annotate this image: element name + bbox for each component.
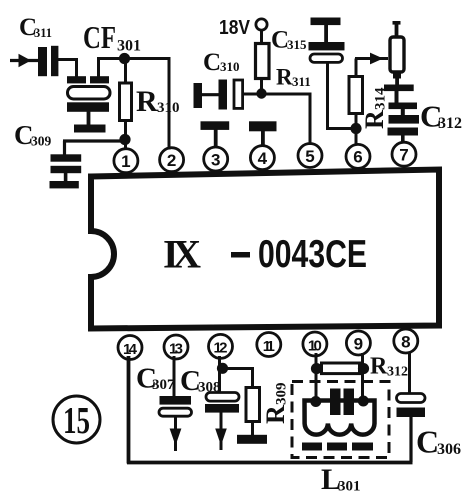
coil L301 body: [305, 401, 375, 435]
input arrow: [10, 54, 40, 67]
svg-text:4: 4: [258, 149, 268, 168]
arrow R314 to coil: [355, 53, 388, 65]
pin 9: [346, 331, 370, 355]
capacitor C307: [159, 396, 192, 416]
capacitor C315: [309, 18, 345, 63]
wire pin14 to bottom bus: [127, 356, 413, 464]
capacitor C306: [397, 394, 426, 418]
svg-text:310: 310: [220, 59, 240, 74]
wire bus up to C306: [409, 417, 412, 462]
svg-text:C: C: [416, 424, 439, 460]
C315 label: [271, 27, 307, 54]
junction node A: [119, 53, 130, 64]
18V terminal: [256, 19, 267, 43]
resistor R310: [120, 59, 132, 141]
ceramic filter CF301: [67, 76, 110, 132]
capacitor stub at pin 4: [249, 121, 277, 147]
pin 13: [164, 335, 188, 359]
C308 label: [180, 365, 221, 397]
pin 3: [204, 147, 228, 171]
svg-text:R: R: [370, 354, 388, 380]
C308 ground arrow: [215, 413, 227, 451]
svg-text:301: 301: [338, 479, 361, 495]
C307 ground arrow: [170, 417, 182, 452]
wire node E to R309: [221, 369, 254, 389]
junction dots R312: [311, 363, 369, 374]
node wire pad to R310 to pin2: [97, 57, 171, 150]
pin 7: [392, 142, 416, 166]
wire pin10 down: [315, 353, 318, 403]
svg-text:308: 308: [198, 380, 221, 396]
junction node D: [350, 123, 361, 134]
figure number 15 (circled): [53, 396, 100, 443]
svg-text:312: 312: [387, 365, 408, 380]
svg-text:14: 14: [123, 341, 138, 358]
pin 2: [160, 148, 184, 172]
pin 5: [298, 144, 322, 168]
L301 label: [321, 463, 361, 496]
R312 label: [370, 354, 408, 380]
coil internal capacitor bars: [330, 389, 354, 416]
junction node C: [256, 88, 266, 98]
pin 8: [394, 329, 418, 353]
svg-text:315: 315: [287, 37, 307, 52]
svg-text:5: 5: [305, 147, 314, 166]
resistor R311: [256, 44, 270, 95]
pin 4: [250, 146, 274, 170]
resistor R314: [349, 59, 363, 130]
pin 6: [346, 144, 370, 168]
wire pin13 to C307: [173, 356, 176, 397]
R311 label: [276, 65, 311, 90]
L301 shield box (dashed): [292, 382, 389, 458]
svg-text:312: 312: [438, 115, 462, 132]
R314 label (rotated): [360, 87, 389, 129]
svg-text:2: 2: [167, 151, 176, 170]
svg-text:0043CE: 0043CE: [258, 233, 367, 276]
svg-text:R: R: [136, 85, 158, 118]
coil core dashes: [302, 443, 373, 451]
svg-text:C: C: [203, 49, 221, 76]
svg-text:307: 307: [152, 377, 175, 393]
resistor R309: [237, 388, 267, 444]
R309 label (rotated): [261, 383, 290, 425]
junction node E: [217, 363, 228, 374]
svg-text:309: 309: [274, 383, 290, 406]
capacitor stub at pin 3: [201, 121, 230, 148]
wire pin9 down: [361, 353, 364, 402]
R310 label: [136, 85, 180, 118]
svg-text:12: 12: [214, 340, 228, 357]
capacitor C312: [388, 91, 420, 144]
wire to pin 1: [124, 140, 127, 151]
svg-text:7: 7: [399, 146, 408, 165]
svg-text:6: 6: [353, 148, 362, 167]
pin 11: [257, 333, 281, 357]
junction node B: [119, 134, 130, 145]
wire node D to pin 6: [355, 129, 358, 146]
C312 label: [420, 99, 462, 134]
wire pin12 to C308: [218, 356, 221, 393]
svg-text:3: 3: [211, 150, 220, 169]
svg-text:IX: IX: [163, 232, 202, 277]
IC part number label IX-0043CE: [163, 232, 367, 277]
C306 label: [416, 424, 461, 460]
svg-text:311: 311: [292, 74, 311, 89]
capacitor C311: [38, 46, 58, 76]
C309 label: [14, 120, 52, 150]
svg-text:18V: 18V: [219, 17, 251, 39]
pin 12: [209, 334, 233, 358]
junction dots on coil: [310, 396, 369, 408]
svg-text:11: 11: [263, 338, 275, 355]
C307 label: [136, 363, 175, 395]
pin 10: [303, 332, 327, 356]
wire C310 to junction to pin 5: [243, 93, 312, 145]
wire C315 to node D: [326, 62, 356, 129]
C311 label: [19, 14, 52, 41]
svg-text:10: 10: [308, 337, 322, 354]
wire node B to C309: [63, 141, 125, 155]
svg-text:R: R: [276, 65, 293, 90]
ground: [50, 173, 79, 188]
wire pin8 to C306: [408, 353, 411, 394]
pin 1: [114, 149, 138, 173]
CF301 label: [83, 19, 141, 55]
svg-text:15: 15: [63, 400, 90, 442]
pin 14: [118, 336, 142, 360]
coil T301 (top right, adjustable): [384, 21, 414, 91]
IC U301 body IX-0043CE: [91, 170, 439, 329]
svg-text:13: 13: [169, 340, 183, 357]
svg-text:1: 1: [121, 152, 130, 171]
capacitor C310: [194, 80, 243, 110]
svg-text:R: R: [261, 405, 290, 424]
svg-text:310: 310: [157, 100, 180, 116]
svg-text:8: 8: [401, 332, 410, 351]
svg-text:CF: CF: [83, 19, 116, 55]
svg-text:R: R: [360, 110, 389, 129]
svg-text:309: 309: [31, 134, 52, 149]
capacitor C308: [205, 393, 239, 413]
svg-text:301: 301: [117, 38, 141, 55]
svg-text:306: 306: [437, 441, 461, 458]
svg-text:311: 311: [34, 26, 52, 40]
resistor R312: [322, 363, 360, 374]
capacitor C309: [51, 154, 82, 173]
wire C311 to CF301: [58, 58, 78, 77]
svg-text:9: 9: [354, 334, 363, 353]
C310 label: [203, 49, 240, 76]
